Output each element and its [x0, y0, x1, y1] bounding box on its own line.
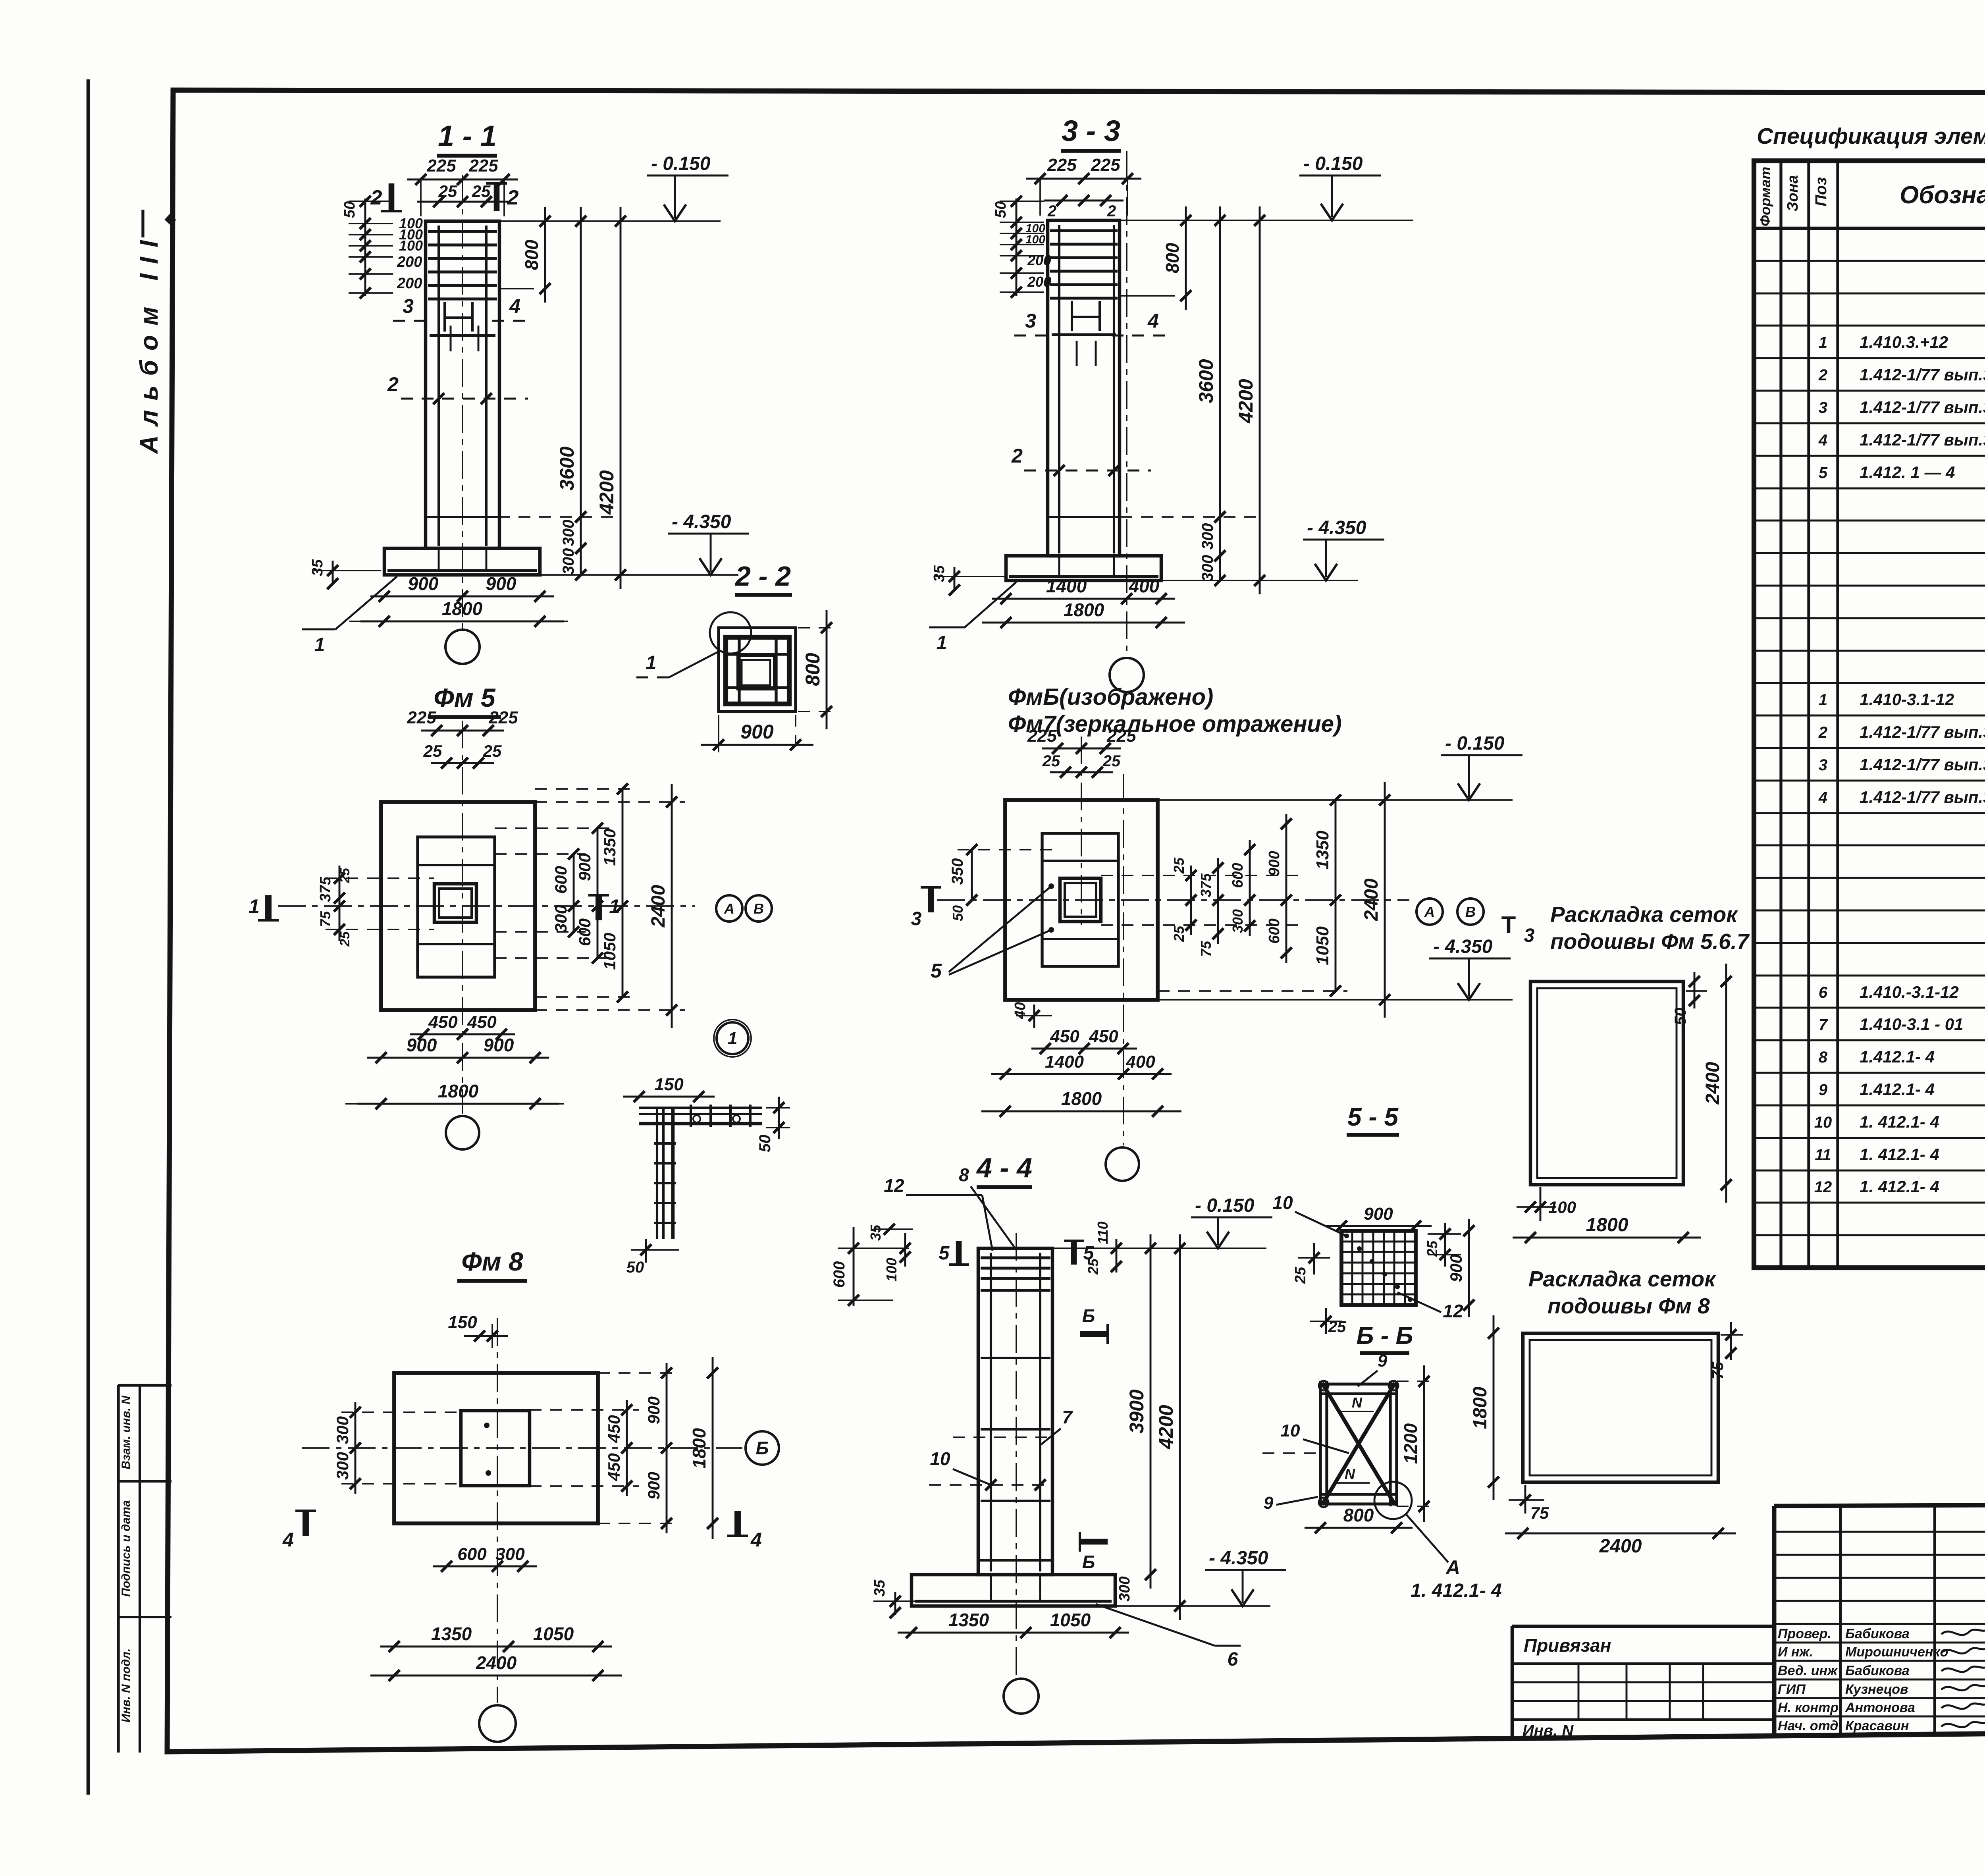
svg-text:1. 412.1- 4: 1. 412.1- 4 — [1411, 1580, 1502, 1601]
section 4-4 leader 6 — [1096, 1604, 1215, 1646]
section 4-4 dim 4200 — [1179, 1234, 1181, 1620]
svg-text:225: 225 — [426, 156, 456, 175]
svg-text:8: 8 — [959, 1165, 969, 1185]
svg-text:1.412.1- 4: 1.412.1- 4 — [1860, 1080, 1935, 1099]
svg-text:3: 3 — [911, 908, 922, 929]
section 4-4 dim 300 right — [1135, 1575, 1136, 1606]
svg-text:3: 3 — [1524, 925, 1535, 946]
svg-text:12: 12 — [1443, 1301, 1463, 1321]
svg-text:25: 25 — [1085, 1258, 1101, 1275]
plan Fm5 bottom dims 450-450 — [410, 1033, 515, 1035]
plan Fm6 level -0.150 — [1158, 799, 1513, 801]
svg-text:100: 100 — [1548, 1198, 1576, 1217]
svg-text:Привязан: Привязан — [1524, 1635, 1611, 1656]
svg-text:7: 7 — [1062, 1407, 1073, 1427]
svg-text:Инв. N подл.: Инв. N подл. — [119, 1648, 133, 1723]
svg-text:375: 375 — [317, 876, 334, 902]
plan Fm6 section mark 3 left — [928, 887, 934, 912]
svg-text:25: 25 — [1102, 752, 1121, 770]
svg-text:450: 450 — [1050, 1027, 1079, 1046]
svg-text:9: 9 — [1264, 1493, 1274, 1513]
section 4-4 level -0.150 — [1052, 1247, 1266, 1249]
svg-text:Раскладка сеток: Раскладка сеток — [1528, 1267, 1717, 1291]
svg-text:1050: 1050 — [600, 933, 619, 970]
svg-text:4200: 4200 — [595, 470, 618, 515]
plan Fm8 vertical axis — [497, 1318, 498, 1703]
section 1-1 rebar verticals — [437, 226, 440, 546]
svg-text:5 - 5: 5 - 5 — [1347, 1103, 1399, 1131]
svg-text:25: 25 — [423, 742, 442, 760]
svg-text:100: 100 — [883, 1258, 900, 1282]
section 2-2 outer square — [719, 628, 796, 711]
svg-text:35: 35 — [867, 1224, 884, 1241]
svg-text:4: 4 — [282, 1529, 294, 1551]
svg-text:Б: Б — [1082, 1552, 1095, 1572]
svg-text:2400: 2400 — [648, 885, 669, 927]
svg-text:- 0.150: - 0.150 — [651, 153, 711, 174]
plan Fm5 bottom dim 1800 — [357, 1103, 559, 1105]
svg-text:1400: 1400 — [1045, 1052, 1084, 1072]
svg-text:1.412-1/77 вып.3: 1.412-1/77 вып.3 — [1860, 365, 1985, 384]
mesh corner detail horizontal bars — [639, 1107, 762, 1109]
plan Fm8 bottom dim 2400 — [370, 1675, 622, 1677]
svg-text:Фм7(зеркальное отражение): Фм7(зеркальное отражение) — [1008, 711, 1341, 737]
svg-text:300: 300 — [551, 905, 570, 933]
svg-text:600: 600 — [457, 1544, 487, 1564]
section 3-3 dim 4200 — [1259, 206, 1261, 594]
svg-text:300: 300 — [495, 1544, 525, 1564]
mesh layout Fm8 dim 1800 left — [1493, 1315, 1495, 1500]
svg-text:1.412-1/77 вып.3: 1.412-1/77 вып.3 — [1860, 398, 1985, 416]
svg-text:200: 200 — [1027, 252, 1051, 268]
svg-text:1.412.1- 4: 1.412.1- 4 — [1860, 1047, 1935, 1066]
svg-text:225: 225 — [1091, 155, 1120, 175]
svg-text:Фм 8: Фм 8 — [461, 1247, 523, 1276]
section 3-3 dims 300-300 — [1219, 517, 1221, 580]
svg-text:1350: 1350 — [431, 1623, 472, 1644]
svg-text:900: 900 — [484, 1035, 514, 1055]
svg-text:2: 2 — [370, 186, 382, 209]
svg-text:35: 35 — [931, 565, 948, 582]
section 3-3 rebar verticals — [1058, 225, 1060, 553]
svg-text:- 4.350: - 4.350 — [1209, 1548, 1268, 1569]
svg-text:2 - 2: 2 - 2 — [734, 561, 791, 592]
svg-text:1050: 1050 — [1313, 926, 1332, 965]
svg-text:2400: 2400 — [476, 1652, 517, 1673]
section 3-3 stirrups — [1050, 229, 1118, 232]
svg-text:225: 225 — [407, 708, 436, 727]
mesh layout Fm8 sheet — [1523, 1333, 1718, 1482]
svg-text:1.410.3.+12: 1.410.3.+12 — [1860, 333, 1948, 351]
detail 5-5 dim 25 bottom — [1325, 1308, 1327, 1334]
svg-text:1.412-1/77 вып.3: 1.412-1/77 вып.3 — [1860, 788, 1985, 806]
plan Fm6 dim 350 left — [971, 850, 973, 900]
svg-text:35: 35 — [871, 1579, 888, 1596]
plan Fm6 vertical axis — [1123, 774, 1124, 1145]
mesh layout Fm567 dim 100 — [1540, 1187, 1542, 1221]
svg-text:- 0.150: - 0.150 — [1195, 1195, 1255, 1216]
svg-text:Обозначение: Обозначение — [1900, 181, 1985, 209]
svg-text:800: 800 — [1162, 243, 1183, 273]
svg-text:И нж.: И нж. — [1778, 1645, 1813, 1660]
section 4-4 cut marks 5 — [956, 1241, 962, 1265]
svg-text:8: 8 — [1819, 1049, 1828, 1066]
plan Fm6 bottom dim 1800 — [981, 1111, 1181, 1112]
svg-text:5: 5 — [1819, 464, 1828, 482]
plan Fm8 horizontal axis — [302, 1447, 742, 1449]
section 3-3 column outline — [1048, 220, 1120, 556]
section 4-4 top dims — [853, 1227, 855, 1306]
section 1-1 dims 25-25 — [417, 201, 508, 203]
svg-text:25: 25 — [1042, 752, 1060, 770]
svg-text:Т: Т — [1501, 912, 1516, 938]
section 4-4 rebar verticals — [990, 1253, 992, 1571]
plan Fm6 middle step rect — [1042, 833, 1118, 966]
svg-text:12: 12 — [884, 1175, 904, 1196]
plan Fm6 level -4.350 — [1158, 999, 1513, 1001]
svg-text:900: 900 — [644, 1396, 663, 1424]
svg-text:300: 300 — [1199, 555, 1216, 582]
svg-text:Нач. отд: Нач. отд — [1778, 1718, 1838, 1733]
svg-text:2: 2 — [1818, 724, 1827, 741]
section 1-1 marks 3 and 4 — [393, 320, 433, 322]
svg-text:Альбом III: Альбом III — [135, 231, 163, 454]
svg-text:9: 9 — [1819, 1081, 1828, 1099]
section 3-3 top dims 225-225 — [1026, 178, 1141, 180]
svg-text:900: 900 — [644, 1472, 663, 1500]
section 1-1 axis bubble — [445, 630, 480, 664]
plan Fm6 axis circles A B — [1416, 898, 1443, 925]
section 3-3 mark 2 lower — [1024, 470, 1151, 472]
plan Fm6 horizontal axis — [937, 899, 1409, 901]
section 3-3 hook detail — [1071, 301, 1073, 331]
section 1-1 level -0.150 — [499, 220, 721, 222]
plan Fm5 outer footing rect — [381, 802, 535, 1010]
svg-text:1: 1 — [314, 634, 325, 656]
svg-text:В: В — [1465, 904, 1476, 920]
svg-text:600: 600 — [1266, 918, 1283, 943]
plan Fm6 dims 25-25 — [1050, 771, 1113, 773]
svg-text:225: 225 — [468, 156, 498, 175]
section 1-1 left spacing ladder — [364, 199, 366, 296]
svg-text:900: 900 — [408, 573, 439, 594]
svg-text:1800: 1800 — [1586, 1215, 1628, 1236]
detail 5-5 dim 25 left — [1313, 1243, 1315, 1274]
svg-text:900: 900 — [407, 1035, 437, 1055]
svg-text:300: 300 — [560, 548, 577, 575]
section 1-1 bottom dim 1800 — [360, 621, 564, 623]
plan Fm6 axis bubble bottom — [1106, 1147, 1139, 1181]
svg-text:300: 300 — [560, 520, 577, 546]
svg-text:Бабикова: Бабикова — [1845, 1626, 1910, 1641]
svg-text:Б - Б: Б - Б — [1357, 1322, 1413, 1350]
svg-text:300: 300 — [1116, 1576, 1133, 1601]
plan Fm5 right dim chain 600-300 — [573, 854, 575, 932]
plan Fm6 bottom dims 450-450 — [1031, 1048, 1137, 1050]
svg-text:100: 100 — [399, 237, 423, 254]
section 3-3 bottom dim 1800 — [982, 622, 1185, 624]
plan Fm5 right dim chain 1350-1050 — [622, 789, 624, 997]
svg-text:- 0.150: - 0.150 — [1303, 153, 1363, 174]
svg-text:3600: 3600 — [1195, 359, 1217, 403]
mesh layout Fm567 sheet — [1530, 981, 1683, 1185]
svg-text:35: 35 — [309, 559, 326, 576]
section 2-2 leader 1 — [669, 651, 719, 677]
svg-text:Б: Б — [1082, 1305, 1095, 1326]
section 3-3 marks 3 and 4 — [1014, 335, 1054, 337]
svg-text:3: 3 — [1819, 756, 1827, 774]
section 1-1 dim 800 — [544, 207, 546, 303]
plan Fm5 axis circles A B — [716, 895, 742, 922]
svg-text:1: 1 — [249, 895, 260, 918]
mesh corner detail dim 150 — [623, 1096, 715, 1098]
section 2-2 dim 800 — [826, 610, 828, 729]
plan Fm8 bottom dims 600-300 — [433, 1566, 537, 1568]
section 1-1 dim 35 — [332, 561, 334, 584]
svg-text:1050: 1050 — [533, 1623, 574, 1644]
svg-text:200: 200 — [397, 254, 422, 270]
svg-text:1 - 1: 1 - 1 — [438, 120, 497, 152]
section 1-1 dim 3600 — [580, 207, 582, 531]
svg-text:900: 900 — [1364, 1204, 1393, 1224]
plan Fm5 right dim 2400 — [671, 784, 673, 1028]
plan Fm5 dims 225-225 — [421, 730, 504, 732]
mesh layout Fm567 dim 2400 — [1725, 964, 1727, 1203]
svg-text:1.412-1/77 вып.3: 1.412-1/77 вып.3 — [1860, 755, 1985, 774]
svg-text:2: 2 — [1011, 445, 1023, 467]
mesh corner detail cross bars — [690, 1105, 692, 1127]
svg-text:25: 25 — [1424, 1240, 1440, 1257]
mesh corner detail vertical bars — [656, 1108, 658, 1239]
section 4-4 axis line — [1016, 1233, 1017, 1679]
svg-text:450: 450 — [467, 1012, 497, 1032]
svg-text:200: 200 — [397, 275, 422, 292]
svg-text:1.410.-3.1-12: 1.410.-3.1-12 — [1860, 983, 1959, 1001]
svg-text:1350: 1350 — [1313, 831, 1332, 870]
svg-text:400: 400 — [1129, 576, 1160, 596]
section 1-1 hook detail — [443, 302, 446, 332]
svg-text:50: 50 — [950, 905, 966, 921]
plan Fm5 dims 25-25 — [431, 762, 494, 764]
section 1-1 mark 2 lower — [401, 398, 528, 400]
paper edge left — [87, 79, 90, 1795]
svg-text:225: 225 — [1047, 155, 1077, 175]
svg-text:Бабикова: Бабикова — [1845, 1663, 1910, 1678]
svg-text:3600: 3600 — [556, 446, 578, 490]
svg-text:800: 800 — [802, 653, 824, 686]
svg-text:25: 25 — [1171, 857, 1187, 874]
title block upper blank rows — [1774, 1531, 1985, 1533]
svg-text:400: 400 — [1125, 1052, 1155, 1072]
svg-text:50: 50 — [341, 201, 358, 218]
svg-text:4: 4 — [1818, 432, 1827, 449]
detail B-B detail circle A — [1374, 1482, 1412, 1519]
svg-text:Спецификация элементов монол: Спецификация элементов монолитных фундам… — [1757, 123, 1985, 149]
svg-text:25: 25 — [1328, 1318, 1346, 1336]
detail 5-5 dim 900 top — [1326, 1225, 1432, 1227]
svg-text:1350: 1350 — [948, 1610, 989, 1630]
section 1-1 cut marks 2 — [389, 183, 395, 211]
svg-text:2: 2 — [507, 186, 519, 209]
svg-text:А: А — [1424, 904, 1435, 920]
plan Fm8 right dim chain 450-450 — [626, 1400, 628, 1496]
section 4-4 footing — [912, 1575, 1115, 1606]
detail B-B dim 1200 — [1423, 1365, 1425, 1522]
svg-text:350: 350 — [949, 858, 966, 885]
section 1-1 dim 4200 — [620, 207, 622, 589]
svg-text:1. 412.1- 4: 1. 412.1- 4 — [1860, 1112, 1939, 1131]
section 1-1 axis line — [462, 175, 463, 629]
svg-text:900: 900 — [740, 721, 774, 743]
svg-text:1: 1 — [937, 632, 947, 654]
plan Fm5 middle step rect — [418, 837, 495, 977]
svg-text:10: 10 — [930, 1448, 950, 1469]
svg-text:2400: 2400 — [1361, 878, 1382, 921]
svg-text:75: 75 — [317, 911, 333, 927]
svg-text:25: 25 — [438, 182, 457, 201]
svg-text:10: 10 — [1814, 1114, 1832, 1131]
plan Fm6 right dim 2400 — [1384, 782, 1386, 1018]
svg-text:Подпись и дата: Подпись и дата — [119, 1500, 133, 1596]
section 1-1 leader 1 — [335, 576, 397, 629]
svg-text:1.412-1/77 вып.3: 1.412-1/77 вып.3 — [1860, 723, 1985, 741]
svg-text:225: 225 — [488, 708, 518, 727]
svg-text:1400: 1400 — [1046, 576, 1087, 596]
plan Fm5 vertical axis — [462, 721, 463, 1114]
svg-text:1: 1 — [728, 1029, 737, 1048]
title block signature columns — [1839, 1506, 1842, 1735]
svg-text:2: 2 — [1818, 366, 1827, 384]
svg-text:450: 450 — [605, 1453, 623, 1481]
svg-text:40: 40 — [1012, 1002, 1029, 1019]
mesh corner detail dim 50 bottom — [645, 1239, 647, 1263]
section 3-3 lap line — [1049, 516, 1120, 518]
svg-text:50: 50 — [626, 1259, 644, 1276]
svg-text:1800: 1800 — [438, 1081, 479, 1101]
section 3-3 bottom dims 1400-400 — [992, 598, 1175, 600]
svg-text:- 4.350: - 4.350 — [1307, 517, 1366, 538]
section 1-1 column outline — [426, 221, 499, 548]
svg-text:ГИП: ГИП — [1778, 1682, 1806, 1697]
svg-text:А: А — [1445, 1556, 1460, 1579]
svg-text:Раскладка сеток: Раскладка сеток — [1550, 902, 1738, 927]
plan Fm6 column square — [1060, 878, 1101, 922]
mesh layout Fm567 dim 1800 — [1513, 1237, 1701, 1239]
svg-text:7: 7 — [1819, 1016, 1828, 1033]
left margin stamp box — [117, 1385, 119, 1753]
section 1-1 top dims 225-225 — [407, 179, 518, 181]
svg-text:1.412. 1 — 4: 1.412. 1 — 4 — [1860, 463, 1955, 482]
svg-text:900: 900 — [486, 573, 516, 594]
detail 5-5 dims right — [1428, 1233, 1461, 1235]
section 2-2 inner void square — [738, 656, 774, 689]
svg-text:Зона: Зона — [1785, 175, 1801, 212]
svg-text:6: 6 — [1228, 1649, 1238, 1670]
svg-text:2: 2 — [1047, 202, 1056, 220]
svg-text:Поз: Поз — [1812, 177, 1830, 206]
svg-text:10: 10 — [1281, 1421, 1300, 1440]
section 4-4 bottom dims 1350-1050 — [898, 1632, 1129, 1634]
title block outline — [1774, 1503, 1985, 1506]
svg-text:Б: Б — [756, 1438, 769, 1458]
svg-text:25: 25 — [337, 931, 353, 947]
svg-text:25: 25 — [1171, 925, 1187, 942]
svg-text:3: 3 — [1819, 399, 1827, 416]
svg-text:Взам. инв. N: Взам. инв. N — [119, 1395, 133, 1469]
svg-text:N: N — [1352, 1394, 1363, 1411]
plan Fm8 axis bubble bottom — [479, 1705, 516, 1742]
svg-text:N: N — [1345, 1466, 1355, 1482]
section 4-4 dim 3900 — [1150, 1234, 1152, 1589]
svg-text:4: 4 — [1147, 310, 1159, 332]
svg-text:25: 25 — [337, 868, 353, 883]
svg-text:1800: 1800 — [689, 1428, 709, 1469]
svg-text:- 0.150: - 0.150 — [1445, 733, 1505, 754]
svg-text:2: 2 — [1107, 202, 1116, 220]
spec table row lines — [1754, 260, 1985, 262]
plan Fm8 dim 150 — [464, 1335, 508, 1337]
svg-text:300: 300 — [1230, 909, 1246, 933]
svg-text:50: 50 — [1672, 1008, 1689, 1026]
section 4-4 dim 35 left — [894, 1592, 896, 1615]
svg-text:- 4.350: - 4.350 — [672, 511, 731, 532]
svg-text:225: 225 — [1106, 726, 1136, 746]
mesh layout Fm8 dim 75 bottom — [1524, 1485, 1526, 1514]
section 3-3 dim 3600 — [1219, 206, 1221, 531]
svg-text:600: 600 — [831, 1261, 848, 1288]
detail B-B diagonals — [1322, 1383, 1395, 1505]
svg-text:110: 110 — [1095, 1221, 1111, 1244]
svg-text:4 - 4: 4 - 4 — [976, 1152, 1032, 1183]
svg-text:1: 1 — [1819, 691, 1827, 709]
svg-text:75: 75 — [1530, 1504, 1549, 1522]
svg-text:подошвы Фм 5.6.7: подошвы Фм 5.6.7 — [1550, 929, 1750, 954]
plan Fm6 column center line — [1081, 737, 1082, 925]
svg-text:450: 450 — [1089, 1027, 1118, 1046]
svg-text:225: 225 — [1027, 726, 1057, 746]
svg-text:9: 9 — [1378, 1351, 1388, 1371]
plan Fm5 left small dims — [339, 866, 341, 941]
spec table header row — [1754, 227, 1985, 230]
svg-text:450: 450 — [605, 1415, 623, 1443]
section 4-4 axis bubble — [1004, 1679, 1039, 1714]
svg-text:Вед. инж: Вед. инж — [1778, 1663, 1838, 1678]
plan Fm6 dims 225-225 — [1042, 748, 1121, 750]
plan Fm8 right dim 1800 — [712, 1357, 714, 1539]
plan Fm8 right dim chain 900-900 — [666, 1363, 668, 1533]
section 3-3 left spacing ladder — [1016, 199, 1018, 296]
svg-text:Мирошниченко: Мирошниченко — [1845, 1645, 1948, 1660]
plan Fm6 inner dim cluster — [1190, 866, 1192, 935]
detail B-B dim 800 — [1305, 1527, 1413, 1529]
svg-text:900: 900 — [1266, 851, 1283, 876]
plan Fm6 outer footing rect — [1005, 800, 1158, 1000]
svg-text:150: 150 — [448, 1313, 477, 1332]
svg-text:75: 75 — [1709, 1361, 1727, 1379]
svg-text:1800: 1800 — [442, 598, 483, 619]
plan Fm5 bottom dims 900-900 — [367, 1057, 549, 1059]
section 3-3 axis line — [1126, 151, 1127, 657]
section 2-2 detail circle — [710, 612, 751, 654]
plan Fm8 outer footing rect — [394, 1373, 598, 1523]
svg-text:900: 900 — [575, 853, 594, 881]
svg-text:200: 200 — [1027, 274, 1051, 290]
section 1-1 footing — [384, 548, 540, 575]
svg-text:1350: 1350 — [600, 829, 619, 866]
mesh layout Fm567 dim 50 — [1686, 990, 1707, 992]
svg-text:1.410-3.1-12: 1.410-3.1-12 — [1860, 690, 1954, 709]
svg-text:450: 450 — [428, 1012, 458, 1032]
